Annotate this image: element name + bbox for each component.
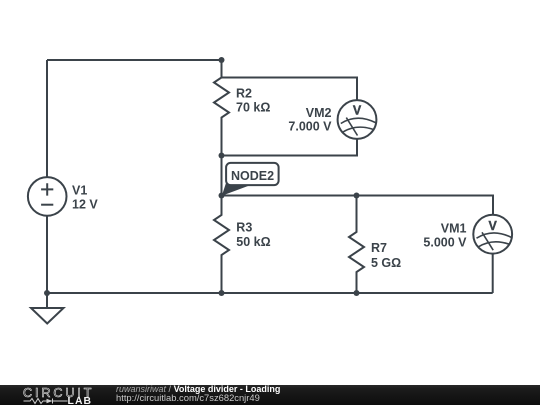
svg-text:VM1: VM1 xyxy=(441,222,467,236)
svg-text:5.000 V: 5.000 V xyxy=(423,235,467,249)
svg-text:7.000 V: 7.000 V xyxy=(288,120,332,134)
svg-text:R7: R7 xyxy=(371,241,387,255)
svg-text:70 kΩ: 70 kΩ xyxy=(236,101,270,115)
svg-text:VM2: VM2 xyxy=(306,106,332,120)
svg-text:12 V: 12 V xyxy=(72,198,98,212)
svg-text:R2: R2 xyxy=(236,86,252,100)
svg-text:NODE2: NODE2 xyxy=(231,169,274,183)
svg-text:V1: V1 xyxy=(72,183,87,197)
svg-text:50 kΩ: 50 kΩ xyxy=(236,235,270,249)
svg-text:R3: R3 xyxy=(236,220,252,234)
svg-text:V: V xyxy=(353,104,362,118)
svg-text:5 GΩ: 5 GΩ xyxy=(371,256,401,270)
svg-text:V: V xyxy=(489,219,498,233)
